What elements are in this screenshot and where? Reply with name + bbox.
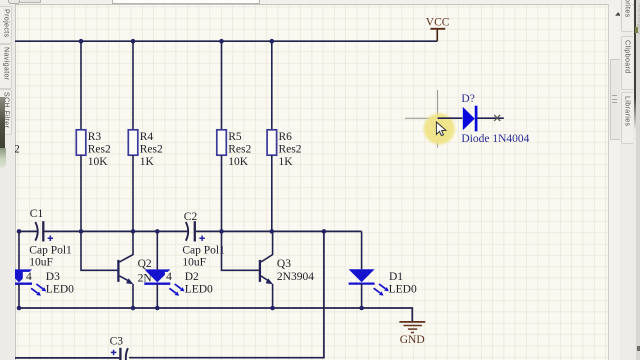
- capacitor C3: [110, 335, 128, 360]
- left dark overlay blob: [0, 97, 5, 152]
- right tab Favorites (cut at top): [621, 0, 633, 32]
- svg-text:D2: D2: [185, 271, 199, 283]
- capacitor C1: [29, 208, 72, 268]
- cursor glow highlight: [422, 111, 457, 146]
- transistor Q3: [260, 231, 314, 308]
- wire R5 bottom lead: [221, 155, 223, 231]
- wire R3 top lead: [80, 41, 82, 130]
- top toolbar sliver: [0, 0, 640, 5]
- svg-text:C3: C3: [110, 335, 124, 347]
- wire C3 feedback branch: [129, 231, 324, 357]
- capacitor C2: [182, 211, 225, 268]
- left panel tab bar: [0, 4, 15, 360]
- svg-text:LED0: LED0: [389, 284, 417, 296]
- mouse cursor: [436, 122, 446, 136]
- right scrollbar track: [608, 4, 621, 360]
- node junction R4/mid: [131, 229, 136, 234]
- wire R5 top lead: [221, 41, 223, 130]
- resistor R4: [128, 130, 138, 155]
- wire R6 top lead: [271, 41, 273, 130]
- left tab Navigator: [0, 44, 12, 89]
- ground GND: [399, 322, 425, 346]
- svg-text:C1: C1: [30, 208, 44, 220]
- wire R6 bottom lead: [271, 155, 273, 231]
- LED D2: [144, 231, 213, 308]
- svg-text:Res2: Res2: [140, 144, 163, 156]
- diode D? being placed: [438, 93, 530, 145]
- wire R4 top lead: [132, 41, 134, 130]
- wire mid rail segment B: [45, 230, 189, 232]
- toolbar button remnant 2: [19, 0, 41, 3]
- right window edge dark line: [634, 0, 637, 130]
- wire mid rail segment A: [19, 230, 38, 232]
- svg-text:2: 2: [14, 144, 20, 156]
- resistor R3: [76, 130, 86, 155]
- node junction R6/top: [270, 39, 275, 44]
- node junction R3/mid: [79, 229, 84, 234]
- node junction D3/mid: [17, 229, 22, 234]
- svg-text:Cap Pol1: Cap Pol1: [182, 244, 225, 256]
- right tab Clipboard: [621, 36, 633, 90]
- svg-text:2N3904: 2N3904: [277, 271, 314, 283]
- svg-text:LED0: LED0: [185, 284, 213, 296]
- svg-text:4: 4: [26, 271, 32, 283]
- node junction R6/mid: [270, 229, 275, 234]
- scrollbar thumb: [610, 59, 621, 140]
- scrollbar up arrow button: [608, 4, 620, 17]
- right screen-edge column: [636, 0, 640, 360]
- node junction R5/top: [219, 39, 224, 44]
- right edge olive dot: [635, 27, 639, 33]
- wire bottom rail: [19, 308, 412, 322]
- power port VCC: [426, 17, 450, 42]
- wire R4 bottom lead: [132, 155, 134, 231]
- wire VCC top rail: [15, 40, 437, 42]
- right tab Libraries: [621, 92, 633, 144]
- right edge bottom mark: [637, 346, 640, 351]
- svg-text:Res2: Res2: [88, 144, 111, 156]
- node junction D3/bottom: [17, 306, 22, 311]
- svg-text:1K: 1K: [140, 156, 155, 168]
- left tab Projects: [0, 6, 12, 44]
- node junction Q2 emitter/bottom: [131, 306, 136, 311]
- svg-text:10uF: 10uF: [29, 256, 53, 268]
- svg-text:D1: D1: [389, 271, 403, 283]
- wire R3 bottom lead: [80, 155, 82, 231]
- node junction D1/bottom: [359, 306, 364, 311]
- svg-text:10uF: 10uF: [182, 256, 206, 268]
- toolbar button remnant 1: [8, 0, 20, 4]
- svg-text:R5: R5: [228, 131, 242, 143]
- wire Q3 base link: [222, 231, 259, 270]
- right panel tab bar: [620, 4, 633, 360]
- svg-text:Q2: Q2: [138, 258, 152, 270]
- LED D1: [349, 231, 417, 308]
- wire C3 left lead: [15, 357, 119, 359]
- svg-text:C2: C2: [184, 211, 198, 223]
- node junction D2/mid: [155, 229, 160, 234]
- node junction Q3 emitter/bottom: [270, 306, 275, 311]
- svg-text:Q3: Q3: [277, 258, 291, 270]
- svg-text:LED0: LED0: [46, 284, 74, 296]
- left overlay blob pale green cap: [0, 148, 6, 168]
- svg-text:GND: GND: [400, 334, 425, 346]
- wire mid rail segment C: [196, 230, 362, 232]
- LED D3: [6, 231, 74, 308]
- placement crosshair: [405, 90, 455, 148]
- resistor R5: [217, 130, 227, 155]
- node junction R5/mid: [219, 229, 224, 234]
- svg-text:R6: R6: [279, 131, 293, 143]
- svg-text:1K: 1K: [279, 156, 294, 168]
- node junction R3/top: [79, 39, 84, 44]
- svg-text:VCC: VCC: [426, 17, 450, 29]
- svg-text:Res2: Res2: [279, 144, 302, 156]
- transistor Q2: [118, 231, 152, 308]
- node junction D2/bottom: [155, 306, 160, 311]
- svg-text:Diode 1N4004: Diode 1N4004: [461, 133, 529, 145]
- scrollbar thumb grip: [612, 95, 617, 96]
- svg-text:Cap Pol1: Cap Pol1: [29, 244, 72, 256]
- wire Q2 base link: [81, 231, 117, 270]
- left tab SCH Filter: [0, 89, 12, 135]
- right edge faint text marks: [637, 4, 640, 35]
- node junction C3 branch/mid: [322, 229, 327, 234]
- svg-text:D3: D3: [46, 271, 60, 283]
- node junction R4/top: [131, 39, 136, 44]
- svg-text:4: 4: [166, 271, 172, 283]
- svg-text:10K: 10K: [88, 156, 109, 168]
- svg-text:Res2: Res2: [228, 144, 251, 156]
- svg-text:R4: R4: [140, 131, 154, 143]
- svg-text:D?: D?: [461, 93, 474, 105]
- toolbar input remnant: [112, 0, 260, 4]
- svg-text:10K: 10K: [228, 156, 249, 168]
- resistor R6: [267, 130, 277, 155]
- svg-text:R3: R3: [88, 131, 102, 143]
